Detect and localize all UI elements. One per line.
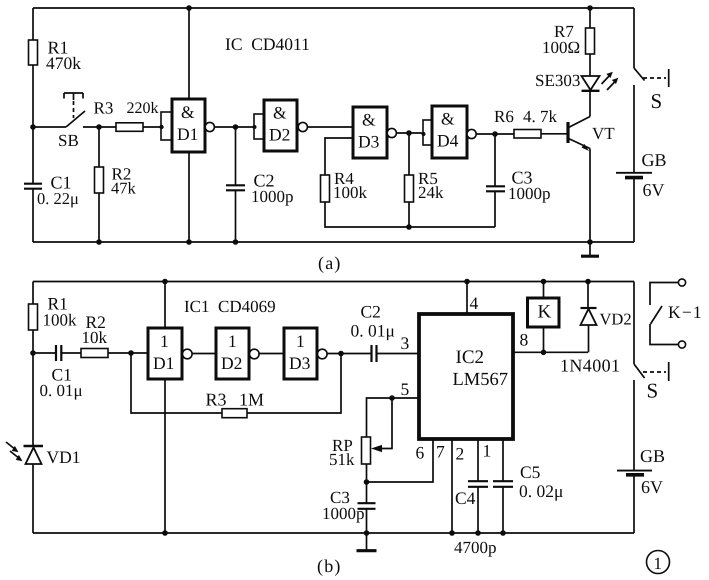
ground (a) — [589, 242, 591, 255]
gate D3 output bubble — [387, 128, 396, 137]
gate D2 (b) — [216, 328, 249, 379]
gate D4 input bracket — [423, 120, 432, 145]
svg-text:D2: D2 — [269, 125, 290, 145]
wire pin 8 — [513, 351, 588, 353]
svg-text:C4: C4 — [455, 488, 476, 508]
svg-text:0. 01μ: 0. 01μ — [351, 321, 395, 341]
photodiode VD1 — [24, 445, 44, 447]
svg-text:7: 7 — [436, 442, 445, 462]
wire battery to bottom rail (a) — [633, 178, 635, 242]
op-amp gate D1 input bracket — [161, 112, 172, 140]
svg-text:100Ω: 100Ω — [542, 38, 580, 57]
svg-text:D4: D4 — [437, 131, 459, 151]
wire pins 6-7 — [367, 439, 434, 482]
svg-text:220k: 220k — [127, 100, 159, 117]
LED arrows — [602, 74, 612, 84]
switch S (b) — [633, 282, 635, 365]
wire left rail upper (a) — [32, 8, 34, 40]
svg-text:6: 6 — [416, 443, 425, 463]
LED SE303 — [582, 76, 600, 90]
wire R2 top — [98, 127, 100, 167]
svg-text:VD2: VD2 — [600, 310, 632, 329]
svg-text:0. 01μ: 0. 01μ — [40, 381, 83, 400]
node R2 bottom — [96, 239, 102, 245]
svg-text:51k: 51k — [329, 450, 355, 469]
transistor VT — [566, 122, 569, 143]
svg-text:6V: 6V — [641, 477, 663, 497]
wire left rail lower (a) — [32, 189, 34, 242]
svg-text:100k: 100k — [333, 183, 368, 202]
relay K — [528, 298, 560, 327]
wire R3 to D1 — [143, 126, 161, 128]
svg-text:4700p: 4700p — [454, 538, 497, 557]
wire R7 top — [589, 8, 591, 28]
resistor R5 (a) — [405, 175, 414, 202]
potentiometer RP — [362, 437, 371, 464]
wire left rail mid (b) — [32, 330, 34, 446]
wire D1 power top — [188, 8, 190, 99]
wire R5 bottom — [408, 202, 410, 227]
svg-text:C5: C5 — [520, 462, 541, 482]
capacitor C3 (a) — [494, 134, 496, 186]
svg-text:4: 4 — [470, 293, 479, 313]
svg-text:&: & — [441, 109, 455, 129]
svg-text:VD1: VD1 — [47, 447, 81, 467]
svg-text:LM567: LM567 — [453, 370, 509, 390]
svg-text:47k: 47k — [111, 179, 137, 198]
wire D3 out (b) — [326, 353, 371, 355]
svg-text:(a): (a) — [318, 253, 342, 273]
wire D1 power bottom — [188, 152, 190, 242]
gate D2 — [264, 100, 297, 151]
wire D2 out to D3 — [307, 126, 353, 128]
wire S to battery (b) — [633, 380, 635, 470]
battery GB (a) — [616, 172, 652, 174]
svg-text:8: 8 — [520, 330, 529, 350]
svg-text:GB: GB — [642, 150, 667, 170]
svg-text:K: K — [538, 302, 552, 323]
svg-text:D1: D1 — [177, 124, 198, 144]
wire pin 5 — [367, 398, 420, 437]
svg-text:3: 3 — [401, 333, 410, 353]
svg-text:&: & — [181, 102, 195, 122]
gate D3 lower input wire — [325, 138, 353, 175]
svg-text:1N4001: 1N4001 — [560, 356, 620, 376]
svg-text:IC CD4011: IC CD4011 — [225, 34, 310, 54]
svg-text:D3: D3 — [289, 353, 311, 373]
battery GB (b) — [617, 470, 652, 472]
svg-text:1: 1 — [483, 441, 492, 461]
gate D2 output bubble — [298, 122, 307, 131]
wire top rail (b) — [33, 281, 634, 283]
wire D1 to D2 (b) — [191, 353, 216, 355]
wire bottom rail (a) — [33, 241, 634, 243]
svg-text:S: S — [651, 89, 663, 113]
svg-text:1M: 1M — [239, 390, 264, 410]
wire VT emitter down — [589, 149, 591, 243]
svg-text:470k: 470k — [46, 53, 81, 73]
node R2 top — [96, 124, 102, 130]
svg-text:1: 1 — [296, 331, 305, 351]
feedback wire left — [131, 353, 222, 413]
wire pin 2 — [451, 439, 453, 533]
capacitor C2 (b) — [372, 345, 377, 362]
wire R6 to VT base — [541, 133, 567, 135]
capacitor C1 (b) — [33, 352, 56, 354]
resistor R1 (b) — [29, 304, 38, 330]
svg-text:1: 1 — [228, 331, 237, 351]
svg-text:K−1: K−1 — [668, 302, 703, 322]
resistor R2 (a) — [95, 167, 104, 193]
svg-text:1: 1 — [160, 331, 169, 351]
svg-text:1000p: 1000p — [508, 184, 551, 203]
wire D1 power (b) — [164, 282, 166, 329]
wire left rail lower (b) — [32, 464, 34, 533]
gate D1 (b) — [148, 328, 182, 379]
wire R5 top — [408, 133, 410, 175]
label circled 1 — [647, 551, 670, 574]
wire C2 to pin3 — [377, 353, 420, 355]
resistor R1 (a) — [29, 40, 38, 65]
svg-text:D2: D2 — [221, 353, 242, 373]
svg-text:10k: 10k — [82, 328, 108, 347]
svg-text:4. 7k: 4. 7k — [523, 107, 558, 126]
wire D4 out to R6 — [476, 133, 514, 135]
svg-text:1000p: 1000p — [322, 504, 365, 523]
svg-text:VT: VT — [592, 124, 615, 143]
resistor R3 (b) — [222, 409, 247, 418]
svg-text:5: 5 — [401, 379, 410, 399]
gate D2 input bracket — [254, 114, 264, 139]
IC U2 LM567 — [419, 314, 513, 439]
wire VT collector up — [589, 91, 591, 117]
gate D3 — [353, 107, 387, 158]
svg-text:&: & — [273, 103, 287, 123]
svg-text:GB: GB — [640, 446, 665, 466]
wire battery to bottom rail (b) — [633, 475, 635, 533]
svg-text:D1: D1 — [153, 353, 174, 373]
svg-text:0. 22μ: 0. 22μ — [37, 189, 79, 208]
wire D1 out to D2 — [214, 126, 254, 128]
svg-text:R6: R6 — [494, 107, 514, 126]
svg-text:100k: 100k — [43, 311, 78, 330]
resistor R6 (a) — [514, 130, 541, 139]
relay contact K-1 — [678, 279, 685, 286]
svg-text:1000p: 1000p — [251, 187, 294, 206]
svg-text:S: S — [647, 379, 659, 403]
gate D4 output bubble — [467, 129, 476, 138]
wire D3 out to D4 — [396, 132, 423, 134]
resistor R4 (a) — [321, 175, 330, 202]
wire bottom rail (b) — [33, 532, 634, 534]
wire left rail mid (a) — [32, 65, 34, 183]
resistor R2 (b) — [81, 349, 108, 358]
RP wiper — [378, 398, 392, 449]
feedback wire right — [247, 354, 341, 414]
gate D3 (b) — [284, 328, 317, 379]
wire S to battery (a) — [633, 85, 635, 172]
gate D1 — [172, 99, 205, 152]
switch S (a) — [633, 8, 635, 68]
wire R2 bottom — [98, 193, 100, 242]
VD1 light arrows — [6, 442, 16, 450]
svg-text:1: 1 — [654, 554, 663, 573]
wire pin 1 + capacitor C4 — [477, 439, 479, 481]
wire pin 4 — [466, 282, 468, 315]
svg-text:SB: SB — [58, 131, 79, 150]
svg-text:IC1 CD4069: IC1 CD4069 — [184, 297, 276, 316]
capacitor C1 (a) — [24, 184, 42, 189]
svg-text:SE303: SE303 — [535, 71, 580, 90]
capacitor C3 (b) — [358, 503, 376, 509]
svg-text:C2: C2 — [361, 302, 381, 322]
svg-text:(b): (b) — [317, 556, 342, 576]
svg-text:D3: D3 — [358, 132, 380, 152]
switch SB — [33, 126, 66, 128]
wire D2 to D3 (b) — [258, 353, 284, 355]
ground (b) — [366, 533, 368, 550]
wire RP bottom — [366, 464, 368, 503]
wire R4 bottom — [325, 202, 495, 227]
svg-text:&: & — [362, 110, 376, 130]
svg-text:2: 2 — [456, 444, 465, 464]
svg-text:24k: 24k — [418, 183, 444, 202]
svg-text:R3: R3 — [94, 99, 114, 118]
wire R2 to D1 — [108, 352, 148, 354]
diode VD2 — [587, 282, 589, 309]
gate D1 output bubble — [205, 122, 214, 131]
resistor R3 (a) — [116, 123, 143, 132]
resistor R7 (a) — [586, 28, 595, 54]
wire R7 to LED — [589, 54, 591, 76]
capacitor C5 — [502, 439, 504, 481]
svg-text:0. 02μ: 0. 02μ — [519, 481, 563, 501]
gate D4 — [432, 106, 467, 158]
svg-text:R3: R3 — [206, 390, 227, 410]
wire left rail upper (b) — [32, 282, 34, 305]
wire top rail (a) — [33, 7, 634, 9]
node SB junction — [30, 124, 36, 130]
svg-text:IC2: IC2 — [456, 347, 485, 368]
capacitor C2 (a) — [235, 127, 237, 185]
svg-text:6V: 6V — [643, 180, 665, 200]
